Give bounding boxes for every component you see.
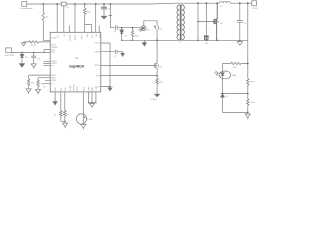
svg-text:PGND: PGND [70, 85, 72, 91]
svg-text:C3: C3 [37, 58, 41, 60]
svg-text:C7: C7 [114, 56, 118, 58]
svg-text:SGND: SGND [51, 38, 57, 40]
svg-text:D1: D1 [25, 57, 29, 59]
svg-text:R12: R12 [159, 82, 164, 84]
svg-text:PVCC: PVCC [95, 43, 101, 45]
svg-text:R9: R9 [31, 83, 35, 85]
svg-text:PAD: PAD [91, 86, 94, 90]
svg-text:2k: 2k [66, 114, 69, 116]
svg-text:ACDRV: ACDRV [69, 33, 72, 40]
svg-text:R7: R7 [46, 16, 50, 18]
svg-text:R17: R17 [251, 82, 256, 84]
svg-text:ACSET: ACSET [74, 33, 77, 40]
svg-text:R18: R18 [251, 102, 256, 104]
svg-text:VCC: VCC [57, 33, 59, 38]
svg-text:MPPT: MPPT [81, 33, 83, 39]
svg-text:R5 2k: R5 2k [31, 45, 37, 47]
svg-text:T1: T1 [179, 42, 182, 44]
svg-text:Q4: Q4 [205, 43, 209, 45]
svg-text:VHI: VHI [96, 34, 98, 38]
svg-text:C6: C6 [114, 31, 118, 33]
svg-text:From Adapter: From Adapter [20, 7, 33, 10]
svg-text:U4A: U4A [232, 74, 237, 77]
svg-text:1.08V: 1.08V [87, 119, 93, 121]
svg-text:Q6: Q6 [220, 23, 224, 25]
svg-text:Q2: Q2 [159, 66, 163, 68]
svg-text:C8: C8 [159, 29, 163, 31]
svg-text:ACN: ACN [51, 51, 56, 54]
svg-text:D4: D4 [125, 35, 129, 37]
svg-text:F1: F1 [67, 7, 70, 9]
svg-text:CMSRC: CMSRC [74, 83, 76, 91]
svg-text:VOUT: VOUT [252, 8, 259, 10]
svg-text:VREF: VREF [51, 80, 57, 82]
svg-text:REGN: REGN [95, 51, 101, 53]
svg-text:From PSE: From PSE [4, 54, 14, 57]
svg-text:L2: L2 [220, 6, 223, 8]
svg-text:GND: GND [89, 86, 91, 91]
svg-text:HIDRV: HIDRV [94, 65, 101, 67]
svg-text:ILIM: ILIM [87, 34, 89, 38]
svg-text:CE: CE [43, 86, 46, 88]
svg-text:DPM: DPM [77, 86, 79, 91]
svg-text:0.065V: 0.065V [150, 99, 157, 101]
svg-text:R16: R16 [233, 67, 238, 69]
svg-text:R8: R8 [87, 12, 91, 14]
svg-text:4k: 4k [54, 114, 57, 116]
svg-text:D5: D5 [225, 96, 229, 98]
svg-text:U6: U6 [147, 29, 151, 31]
svg-text:bq24610: bq24610 [69, 65, 84, 69]
svg-text:R13: R13 [135, 35, 140, 37]
svg-text:C9: C9 [244, 23, 248, 25]
svg-text:FB2: FB2 [65, 87, 67, 90]
svg-text:FB1: FB1 [61, 87, 63, 90]
